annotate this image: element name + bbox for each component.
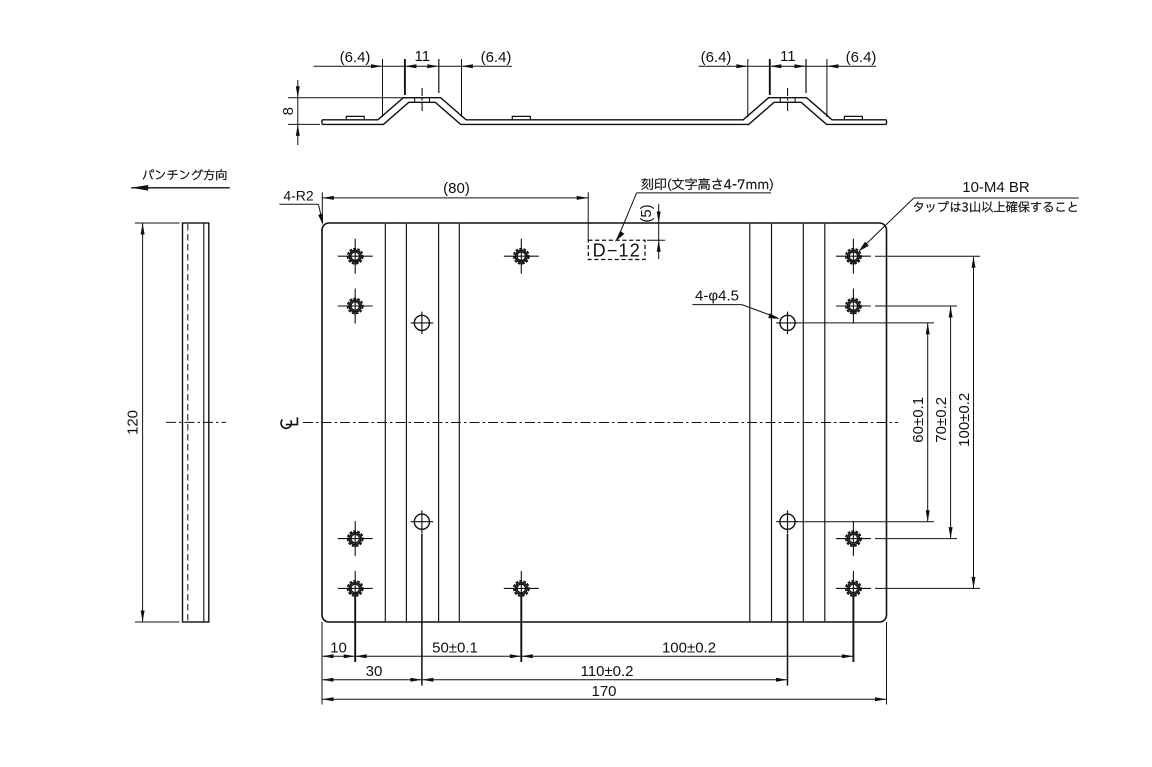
hole phi4.5 #1 xyxy=(411,312,434,335)
svg-text:10-M4 BR: 10-M4 BR xyxy=(962,179,1030,196)
tapped hole M4 #8 xyxy=(836,289,871,324)
tapped hole M4 #2 xyxy=(338,289,373,324)
dim line left bump xyxy=(314,65,512,67)
profile view: formed sheet cross-section outline xyxy=(322,98,887,120)
tapped hole M4 #9 xyxy=(836,521,871,556)
4-phi4.5 underline and leader xyxy=(692,304,741,306)
profile boss tab 3 xyxy=(844,116,862,119)
bend line 3 xyxy=(438,224,440,621)
note kokuin (stamp, char height 4-7mm) Japanese xyxy=(642,178,773,191)
svg-text:(6.4): (6.4) xyxy=(701,49,732,66)
svg-text:10: 10 xyxy=(330,639,347,656)
svg-text:11: 11 xyxy=(415,48,431,65)
extension line below: col 10 xyxy=(354,596,356,662)
dim (6.4)/11/(6.4) right bump: extension lines xyxy=(747,59,749,117)
dim 120: extension lines xyxy=(135,222,180,224)
tapped hole M4 #1 xyxy=(338,239,373,274)
dim 8: extension lines xyxy=(288,97,424,99)
svg-text:170: 170 xyxy=(591,683,616,700)
10-M4 underline and leader xyxy=(914,197,1079,199)
main centerline (dash-dot) xyxy=(303,422,898,424)
tapped hole M4 #3 xyxy=(338,521,373,556)
svg-text:8: 8 xyxy=(280,107,297,115)
svg-text:4-R2: 4-R2 xyxy=(283,187,314,203)
tapped hole M4 #10 xyxy=(836,571,871,606)
dim 50±0.1 xyxy=(355,655,521,657)
svg-text:60±0.1: 60±0.1 xyxy=(910,397,927,443)
bend line 8 xyxy=(824,224,826,621)
note tap threads Japanese xyxy=(914,201,1077,212)
hole phi4.5 #2 xyxy=(776,312,799,335)
dim line right bump xyxy=(699,65,876,67)
side view outline xyxy=(183,223,209,622)
svg-text:(6.4): (6.4) xyxy=(846,49,877,66)
side view centerline xyxy=(166,421,226,423)
centerline CL symbol xyxy=(281,417,297,428)
svg-text:50±0.1: 50±0.1 xyxy=(432,639,478,656)
dim 170 xyxy=(322,698,887,700)
tapped hole M4 #4 xyxy=(338,571,373,606)
profile hole edge ticks right bump xyxy=(779,98,781,103)
4-R2 underline and leader xyxy=(279,203,318,205)
dim (80): extension lines xyxy=(321,192,323,218)
bend line 6 xyxy=(771,224,773,621)
extension line below: right edge xyxy=(886,622,888,705)
extension line below plate: left edge xyxy=(321,622,323,705)
extension line below: col 60 xyxy=(520,596,522,662)
dim (5): dimension line, arrows outside xyxy=(658,204,660,259)
bend line 4 xyxy=(458,224,460,621)
svg-text:30: 30 xyxy=(366,663,383,680)
svg-text:(6.4): (6.4) xyxy=(481,49,512,66)
extension line below: col 140 xyxy=(787,534,789,686)
bend line 1 xyxy=(384,224,386,621)
tapped hole M4 #5 xyxy=(504,239,539,274)
hole phi4.5 #4 xyxy=(776,510,799,533)
svg-text:110±0.2: 110±0.2 xyxy=(581,663,634,680)
dim 8: dimension line and arrows xyxy=(297,80,299,145)
svg-text:100±0.2: 100±0.2 xyxy=(662,639,716,656)
profile boss tab 2 xyxy=(512,116,530,119)
dim 10 xyxy=(322,655,355,657)
dim 100±0.2 xyxy=(521,655,853,657)
punching direction arrow xyxy=(131,187,230,189)
dim (5): extension line xyxy=(647,239,665,241)
dim 120: dimension line xyxy=(142,223,144,622)
side view hidden line (dashed) xyxy=(187,224,189,621)
stamp box D-12 (dashed) xyxy=(588,240,645,259)
right extension lines from holes xyxy=(875,255,980,257)
svg-text:(6.4): (6.4) xyxy=(340,49,371,66)
dim 70±0.2 xyxy=(950,306,952,539)
dim 100±0.2 right xyxy=(973,256,975,588)
profile centerline right bump xyxy=(787,88,789,114)
svg-text:(80): (80) xyxy=(443,180,470,197)
dim (80): dimension line xyxy=(322,197,588,199)
punching direction label (Japanese) xyxy=(143,169,227,180)
svg-text:70±0.2: 70±0.2 xyxy=(933,397,950,443)
dim 60±0.1 xyxy=(927,323,929,522)
profile boss tab 1 xyxy=(346,116,364,119)
profile hole edge ticks left bump xyxy=(414,98,416,103)
side view inner surface line xyxy=(203,223,205,622)
bend line 5 xyxy=(749,224,751,621)
svg-text:(5): (5) xyxy=(638,204,655,222)
kokuin underline and leader xyxy=(637,192,771,194)
dim 30 xyxy=(322,679,422,681)
profile centerline left bump xyxy=(421,88,423,114)
hole phi4.5 #3 xyxy=(411,510,434,533)
dim 110±0.2 xyxy=(422,679,788,681)
svg-text:4-φ4.5: 4-φ4.5 xyxy=(695,288,739,305)
svg-text:11: 11 xyxy=(780,48,796,65)
dim (6.4)/11/(6.4) left bump: extension lines xyxy=(382,59,384,117)
tapped hole M4 #6 xyxy=(504,571,539,606)
svg-text:D−12: D−12 xyxy=(593,241,641,261)
plate outline (rounded corners) xyxy=(322,223,887,622)
svg-text:120: 120 xyxy=(125,410,142,435)
svg-text:100±0.2: 100±0.2 xyxy=(956,393,973,447)
extension line below: col 160 xyxy=(852,596,854,662)
bend line 7 xyxy=(802,224,804,621)
bend line 2 xyxy=(405,224,407,621)
extension line below: col 30 xyxy=(421,534,423,686)
tapped hole M4 #7 xyxy=(836,239,871,274)
